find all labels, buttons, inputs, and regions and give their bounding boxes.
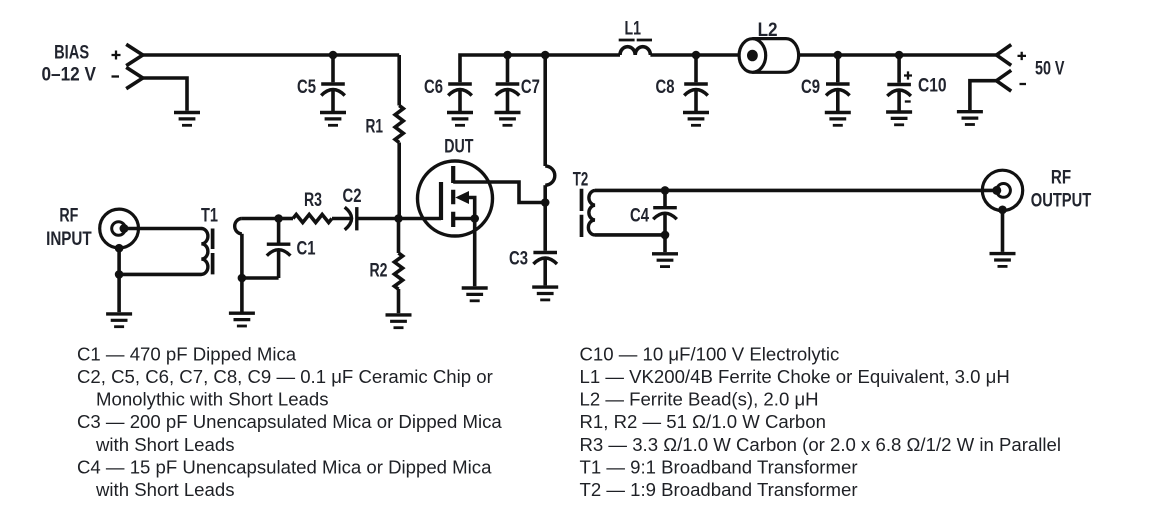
ground (RF input)	[106, 314, 132, 327]
svg-text:C5: C5	[297, 76, 316, 98]
svg-text:Monolythic with Short Leads: Monolythic with Short Leads	[96, 389, 329, 410]
svg-text:R1: R1	[366, 116, 384, 138]
svg-text:RF: RF	[59, 205, 78, 227]
svg-text:C4 — 15 pF Unencapsulated Mica: C4 — 15 pF Unencapsulated Mica or Dipped…	[77, 456, 492, 477]
wire R2 bottom lead	[397, 289, 401, 313]
resistor R3	[293, 214, 332, 222]
svg-text:INPUT: INPUT	[46, 228, 92, 250]
wire shield to ground	[117, 274, 121, 312]
wire RF output shield to ground	[1001, 210, 1005, 252]
RF INPUT label	[46, 205, 92, 251]
DUT channel segments	[451, 166, 455, 227]
DUT arrow	[455, 191, 469, 204]
wire bias + rail	[143, 53, 399, 57]
bias + terminal chevron	[126, 44, 143, 65]
svg-text:L2: L2	[758, 19, 778, 41]
bias - terminal chevron	[126, 67, 143, 88]
ground (C3)	[532, 287, 558, 300]
svg-text:R1, R2 — 51 Ω/1.0 W Carbon: R1, R2 — 51 Ω/1.0 W Carbon	[580, 411, 826, 432]
transformer T1 core	[211, 229, 215, 275]
capacitor C10 (electrolytic)	[887, 85, 911, 97]
wire node A to C1	[277, 219, 281, 243]
ground (RF output)	[990, 254, 1016, 267]
svg-text:T1 — 9:1 Broadband Transformer: T1 — 9:1 Broadband Transformer	[580, 456, 858, 477]
capacitor C2 (series)	[345, 207, 352, 230]
svg-text:C8: C8	[656, 76, 675, 98]
svg-text:R2: R2	[370, 260, 388, 282]
capacitor C10 plus sign	[904, 71, 912, 79]
wire T2 secondary bottom lead	[595, 233, 665, 237]
parts list left column	[77, 343, 502, 500]
wire T2 secondary top lead to RF output	[595, 189, 997, 193]
ground (DUT source)	[462, 288, 488, 301]
wire C5 drop	[331, 55, 335, 82]
ground (C4)	[652, 254, 678, 267]
capacitor C10 minus sign	[905, 100, 911, 102]
node C9 junction	[834, 51, 843, 60]
capacitor C5	[321, 84, 345, 96]
svg-text:0–12 V: 0–12 V	[41, 64, 96, 86]
wire node A to R3	[279, 217, 293, 221]
svg-text:C3: C3	[509, 248, 528, 270]
node A gate network	[274, 214, 283, 223]
resistor R1	[395, 106, 403, 143]
wire T2 primary feed	[543, 55, 547, 166]
wire shield down	[117, 248, 121, 274]
RF output connector	[982, 170, 1022, 210]
capacitor C1	[267, 244, 291, 256]
50V - terminal chevron	[996, 70, 1011, 91]
node DUT source junction	[470, 214, 479, 223]
svg-text:T2: T2	[573, 169, 589, 191]
svg-text:C6: C6	[424, 76, 443, 98]
capacitor C4	[653, 208, 677, 220]
50 V label	[1035, 58, 1065, 80]
svg-text:with Short Leads: with Short Leads	[95, 479, 235, 500]
resistor R2	[394, 253, 402, 289]
transformer T2 primary single turn	[545, 166, 555, 185]
svg-text:R3 — 3.3 Ω/1.0 W Carbon (or 2.: R3 — 3.3 Ω/1.0 W Carbon (or 2.0 x 6.8 Ω/…	[580, 434, 1061, 455]
ground (T1 secondary)	[229, 313, 255, 326]
node drain junction	[541, 198, 550, 207]
wire C8 drop	[694, 55, 698, 82]
ground (C6)	[447, 113, 473, 126]
node C7 junction	[503, 51, 512, 60]
RF OUTPUT label	[1031, 167, 1092, 212]
svg-text:50 V: 50 V	[1035, 58, 1065, 80]
wire R1 bottom lead	[397, 143, 401, 219]
bias plus sign	[112, 51, 121, 60]
wire L2 to 50V	[799, 53, 997, 57]
ground (C5)	[320, 113, 346, 126]
wire DUT drain lead	[453, 182, 545, 203]
BIAS label	[41, 42, 96, 86]
DUT source lead	[453, 217, 475, 221]
wire drain rail with C6 drop	[460, 55, 620, 82]
DUT gate bar	[439, 182, 443, 220]
wire gate lead	[399, 217, 442, 221]
svg-text:L1: L1	[625, 18, 642, 40]
svg-text:DUT: DUT	[444, 136, 473, 158]
50V plus sign	[1018, 52, 1027, 60]
wire bias - to ground	[143, 78, 187, 111]
svg-text:RF: RF	[1051, 167, 1071, 189]
svg-text:C2: C2	[343, 185, 362, 207]
ground (C9)	[825, 113, 851, 126]
ground (50V minus)	[957, 112, 983, 125]
svg-text:C1: C1	[297, 238, 316, 260]
wire 50V minus to ground	[970, 81, 997, 110]
capacitor C7	[496, 84, 520, 96]
svg-text:T1: T1	[201, 205, 218, 227]
node T1 secondary bottom	[238, 274, 247, 283]
node RF output shield	[998, 206, 1007, 215]
wire T1 secondary top lead	[242, 217, 279, 221]
svg-text:C7: C7	[521, 76, 540, 98]
ground (bias minus)	[174, 113, 200, 126]
svg-text:L2 — Ferrite Bead(s), 2.0 μH: L2 — Ferrite Bead(s), 2.0 μH	[580, 389, 819, 410]
wire C4 top lead	[663, 190, 667, 206]
50V + terminal chevron	[996, 45, 1011, 66]
svg-text:C2, C5, C6, C7, C8, C9 — 0.1 μ: C2, C5, C6, C7, C8, C9 — 0.1 μF Ceramic …	[77, 366, 493, 387]
svg-text:with Short Leads: with Short Leads	[95, 434, 235, 455]
svg-text:C1 — 470 pF Dipped Mica: C1 — 470 pF Dipped Mica	[77, 343, 297, 364]
capacitor C9	[826, 84, 850, 96]
RF input connector	[100, 209, 139, 248]
svg-text:C9: C9	[801, 76, 820, 98]
transformer T2 core	[580, 189, 584, 237]
wire RF input center conductor	[124, 227, 202, 231]
svg-text:C3 — 200 pF Unencapsulated Mic: C3 — 200 pF Unencapsulated Mica or Dippe…	[77, 411, 502, 432]
wire L1 to L2	[650, 53, 740, 57]
inductor L1 core dashes	[619, 39, 652, 42]
wire R3 to C2	[332, 217, 351, 221]
wire C9 drop	[836, 55, 840, 82]
node gate junction	[394, 214, 403, 223]
wire T1 bottom to ground	[240, 278, 244, 312]
transformer T1 primary winding	[201, 229, 208, 275]
transistor DUT (MOSFET)	[418, 161, 493, 236]
capacitor C3	[533, 253, 557, 265]
node RF input shield top	[115, 244, 124, 253]
wire C10 drop	[897, 55, 901, 83]
ground (C8)	[683, 113, 709, 126]
bias minus sign	[112, 75, 120, 77]
svg-text:BIAS: BIAS	[54, 42, 89, 64]
wire R1 top lead	[397, 55, 401, 106]
wire C4 to ground	[663, 235, 667, 252]
svg-text:R3: R3	[304, 189, 322, 211]
node T2 feed junction	[541, 51, 550, 60]
capacitor C6	[448, 84, 472, 96]
svg-text:C10 — 10 μF/100 V Electrolytic: C10 — 10 μF/100 V Electrolytic	[580, 343, 840, 364]
svg-text:C4: C4	[630, 205, 649, 227]
svg-text:T2 — 1:9 Broadband Transformer: T2 — 1:9 Broadband Transformer	[580, 479, 858, 500]
node C5 junction	[329, 51, 338, 60]
wire DUT source to ground	[473, 219, 477, 287]
wire shield to T1 primary bottom	[119, 273, 201, 277]
wire R2 top lead	[397, 219, 401, 254]
parts list right column	[580, 343, 1061, 500]
svg-text:C10: C10	[918, 75, 947, 97]
wire C2 to gate node	[357, 217, 399, 221]
50V minus sign	[1020, 83, 1027, 85]
node C4 bottom	[661, 231, 670, 240]
capacitor C8	[684, 84, 708, 96]
wire drain node to C3	[543, 203, 547, 251]
node shield/T1 junction	[115, 270, 124, 279]
node C10 junction	[895, 51, 904, 60]
node C4 top	[661, 186, 670, 195]
inductor L1	[620, 47, 650, 55]
ground (C10)	[886, 112, 912, 125]
wire C7 drop	[506, 55, 510, 82]
ground (C7)	[495, 113, 521, 126]
ground (R2)	[386, 315, 412, 328]
wire T1 bottom to C1	[242, 276, 279, 280]
transformer T1 secondary single turn	[235, 219, 242, 234]
node C8 junction	[692, 51, 701, 60]
svg-text:OUTPUT: OUTPUT	[1031, 190, 1092, 212]
inductor L2 ferrite bead	[739, 39, 799, 73]
svg-text:L1 — VK200/4B Ferrite Choke or: L1 — VK200/4B Ferrite Choke or Equivalen…	[580, 366, 1010, 387]
transformer T2 secondary winding	[588, 190, 595, 235]
